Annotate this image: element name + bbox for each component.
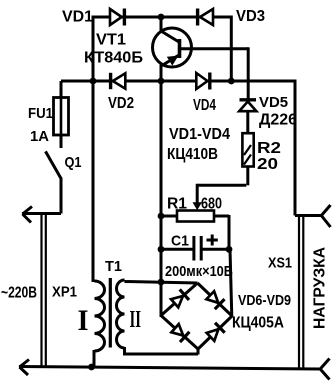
svg-text:VD2: VD2 (108, 95, 134, 112)
svg-text:T1: T1 (105, 258, 122, 275)
svg-text:XS1: XS1 (268, 255, 292, 272)
svg-text:VD1-VD4: VD1-VD4 (169, 126, 230, 143)
svg-text:C1: C1 (171, 233, 189, 250)
svg-text:~220В: ~220В (1, 285, 37, 302)
svg-text:20: 20 (257, 156, 278, 173)
svg-text:VD6-VD9: VD6-VD9 (238, 292, 291, 309)
svg-text:КЦ410В: КЦ410В (167, 146, 218, 163)
svg-text:КТ840Б: КТ840Б (84, 50, 143, 67)
svg-text:200мк×10В: 200мк×10В (165, 263, 233, 280)
svg-text:VD5: VD5 (259, 94, 288, 111)
svg-text:XP1: XP1 (52, 284, 77, 301)
svg-text:R2: R2 (257, 140, 281, 157)
svg-text:FU1: FU1 (28, 105, 53, 122)
svg-text:1A: 1A (30, 128, 49, 145)
svg-text:VT1: VT1 (96, 32, 126, 49)
svg-text:R1: R1 (167, 196, 187, 213)
svg-text:Q1: Q1 (65, 154, 82, 171)
svg-text:VD4: VD4 (193, 97, 216, 114)
svg-text:VD3: VD3 (236, 8, 265, 25)
svg-text:680: 680 (201, 196, 222, 213)
svg-text:Д226: Д226 (259, 112, 297, 129)
svg-text:КЦ405А: КЦ405А (232, 315, 284, 332)
svg-text:I: I (78, 304, 89, 337)
svg-text:НАГРУЗКА: НАГРУЗКА (312, 247, 329, 329)
svg-text:II: II (130, 307, 142, 333)
svg-text:VD1: VD1 (62, 8, 93, 25)
